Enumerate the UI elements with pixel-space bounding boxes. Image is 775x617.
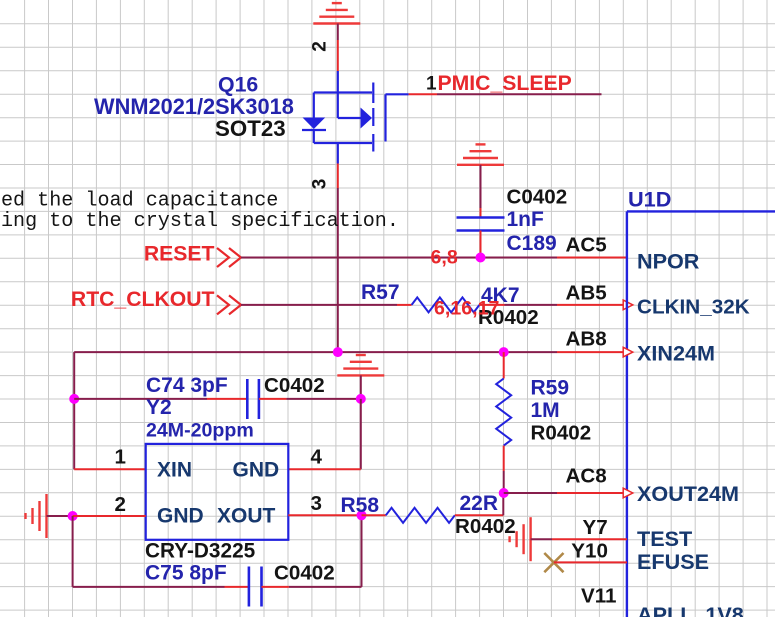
svg-text:1M: 1M xyxy=(531,399,560,422)
pin of C75 (right, red) xyxy=(262,586,289,588)
svg-text:TEST: TEST xyxy=(637,526,692,551)
svg-text:AB5: AB5 xyxy=(566,281,607,304)
svg-text:XIN24M: XIN24M xyxy=(637,340,715,365)
pin arrow XIN24M xyxy=(623,347,633,357)
U1D symbol boundary xyxy=(627,211,775,617)
pin AB5 red segment (CLKIN_32K) xyxy=(557,304,627,306)
wire XIN24M net xyxy=(74,351,557,353)
svg-text:RTC_CLKOUT: RTC_CLKOUT xyxy=(71,288,215,311)
pin of R58 (right, red) xyxy=(455,514,504,516)
resistor R57 xyxy=(412,297,480,312)
wire RESET to NPOR xyxy=(241,257,557,259)
wire R58 up to XOUT24M xyxy=(502,493,504,515)
svg-text:XIN: XIN xyxy=(157,458,192,481)
svg-text:24M-20ppm: 24M-20ppm xyxy=(146,420,254,442)
svg-text:2: 2 xyxy=(115,493,126,516)
svg-text:AB8: AB8 xyxy=(566,327,607,350)
wire C75 riser to pin 3 xyxy=(361,515,363,587)
pin 1 of Y2 (red) xyxy=(74,468,146,470)
port chevron RESET xyxy=(217,248,241,267)
svg-text:6,8: 6,8 xyxy=(431,247,458,269)
ground symbol (top, above Q16 drain) xyxy=(313,3,360,23)
svg-text:R0402: R0402 xyxy=(531,421,592,444)
svg-text:3: 3 xyxy=(310,179,331,190)
svg-text:PMIC_SLEEP: PMIC_SLEEP xyxy=(438,72,572,95)
capacitor C189 xyxy=(457,218,505,231)
svg-text:APLL_1V8: APLL_1V8 xyxy=(637,602,744,617)
junction C74 right / ground / pin4 xyxy=(356,394,366,404)
transistor Q16 symbol xyxy=(302,71,409,164)
wire ground to pin 2 junction xyxy=(47,515,73,517)
svg-text:SOT23: SOT23 xyxy=(215,116,286,141)
svg-text:ing to the crystal specificati: ing to the crystal specification. xyxy=(1,210,399,233)
wire from Q16 source down to XIN24M net xyxy=(337,188,339,352)
svg-text:6,16,17: 6,16,17 xyxy=(434,298,499,320)
pin of C74 (left, red) xyxy=(207,398,247,400)
crystal Y2 body xyxy=(146,444,289,540)
svg-text:C0402: C0402 xyxy=(274,561,335,584)
wire RTC_CLKOUT to R57 xyxy=(241,304,397,306)
pin of R59 (top, red) xyxy=(503,352,505,378)
pin of R59 (bottom, red) xyxy=(503,446,505,471)
ground symbol (mid, above GND pin 4) xyxy=(337,355,384,375)
svg-text:V11: V11 xyxy=(581,585,617,608)
pin of C74 (right, red) xyxy=(259,398,287,400)
svg-text:R57: R57 xyxy=(361,281,400,304)
pin of C75 (left, red) xyxy=(225,586,249,588)
svg-text:CRY-D3225: CRY-D3225 xyxy=(145,539,255,562)
pin 3 of Y2 (red) xyxy=(288,514,361,516)
pin of R58 (left, red) xyxy=(362,514,386,516)
svg-text:C75 8pF: C75 8pF xyxy=(145,561,227,584)
no-connect cross on EFUSE xyxy=(544,553,563,572)
pin arrow XOUT24M xyxy=(623,488,633,498)
ground symbol (left of pin 2) xyxy=(26,494,47,538)
wire ground to C74 junction xyxy=(360,375,362,399)
svg-text:EFUSE: EFUSE xyxy=(637,549,709,574)
pin 4 of Y2 (red) xyxy=(288,468,361,470)
pin 1 of Q16 (red pin segment, gate) xyxy=(409,93,437,95)
svg-text:R0402: R0402 xyxy=(455,515,516,538)
pin AC5 red segment (NPOR) xyxy=(557,257,627,259)
pin AB8 red segment (XIN24M) xyxy=(557,351,627,353)
wire PMIC_SLEEP xyxy=(437,93,602,95)
wire XOUT24M xyxy=(504,492,557,494)
svg-text:C74 3pF: C74 3pF xyxy=(146,374,228,397)
junction pin 3 / C75 riser xyxy=(357,510,367,520)
svg-text:GND: GND xyxy=(157,505,204,528)
pin Y7 red segment (TEST) xyxy=(552,538,627,540)
wire ground to C189 xyxy=(480,165,482,208)
wire C74 left xyxy=(74,398,207,400)
svg-text:CLKIN_32K: CLKIN_32K xyxy=(637,295,750,318)
pin Y10 red segment (EFUSE) xyxy=(554,561,627,563)
wire C75 bottom right xyxy=(289,586,362,588)
pin 2 of Q16 (red pin segment) xyxy=(337,40,339,71)
pin AC8 red segment (XOUT24M) xyxy=(557,492,627,494)
junction XIN24M at R59 xyxy=(499,347,509,357)
junction pin 2 / ground / C75 loop xyxy=(68,511,78,521)
port chevron RTC_CLKOUT xyxy=(217,295,241,314)
svg-text:RESET: RESET xyxy=(144,243,215,266)
svg-text:1nF: 1nF xyxy=(507,208,545,231)
resistor R58 xyxy=(386,508,455,523)
svg-text:AC5: AC5 xyxy=(566,233,607,256)
junction XIN24M at Q16 wire xyxy=(333,347,343,357)
wire XIN24M left drop xyxy=(73,352,75,469)
ground symbol (left of TEST pin) xyxy=(510,517,531,561)
svg-text:XOUT: XOUT xyxy=(217,505,276,528)
svg-text:2: 2 xyxy=(310,41,331,52)
pin 3 of Q16 (red pin segment, source) xyxy=(337,164,339,189)
wire R57 to CLKIN_32K xyxy=(505,304,558,306)
svg-text:C0402: C0402 xyxy=(507,185,568,208)
wire R59 to XOUT24M xyxy=(503,471,505,493)
svg-text:GND: GND xyxy=(233,458,280,481)
svg-text:4: 4 xyxy=(311,446,323,469)
pin arrow CLKIN_32K xyxy=(623,300,633,310)
ground symbol (above C189) xyxy=(457,144,504,164)
svg-text:Y2: Y2 xyxy=(146,396,172,419)
capacitor C75 xyxy=(249,567,262,607)
wire down to pin 4 xyxy=(360,399,362,469)
pin of C189 (bottom, red) xyxy=(480,231,482,258)
junction left drop at C74 xyxy=(69,394,79,404)
svg-text:Q16: Q16 xyxy=(218,73,258,97)
wire C75 loop left drop xyxy=(72,516,74,587)
pin of R57 (left, red) xyxy=(397,304,412,306)
svg-text:XOUT24M: XOUT24M xyxy=(637,481,739,506)
resistor R59 xyxy=(496,379,511,446)
junction XOUT24M node xyxy=(499,488,509,498)
wire C75 bottom left xyxy=(73,586,225,588)
svg-text:NPOR: NPOR xyxy=(637,248,700,273)
svg-text:22R: 22R xyxy=(460,492,499,515)
svg-text:R59: R59 xyxy=(531,376,570,399)
svg-text:R58: R58 xyxy=(341,494,380,517)
capacitor C74 xyxy=(247,379,259,419)
svg-text:C189: C189 xyxy=(507,232,557,255)
svg-text:1: 1 xyxy=(115,446,126,469)
wire C74 right xyxy=(286,398,360,400)
svg-text:C0402: C0402 xyxy=(264,374,325,397)
pin of R57 (right, red) xyxy=(479,304,504,306)
pin of C189 (top, red) xyxy=(480,208,482,218)
wire from top ground to Q16 pin 2 xyxy=(337,24,339,41)
svg-text:AC8: AC8 xyxy=(566,464,607,487)
svg-text:Y10: Y10 xyxy=(571,540,608,563)
wire ground to TEST pin xyxy=(531,538,552,540)
svg-text:U1D: U1D xyxy=(628,187,671,212)
junction on NPOR net at C189 xyxy=(476,253,486,263)
svg-text:3: 3 xyxy=(311,492,322,515)
svg-text:1: 1 xyxy=(426,74,437,95)
pin 2 of Y2 (red) xyxy=(73,515,146,517)
svg-text:Y7: Y7 xyxy=(583,516,608,539)
